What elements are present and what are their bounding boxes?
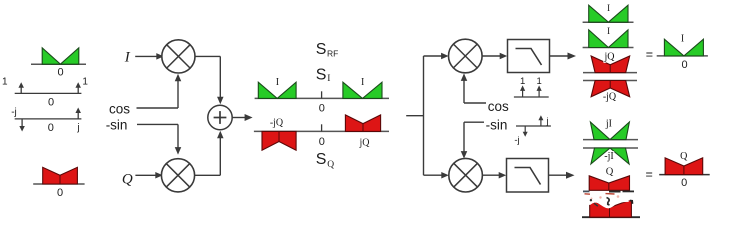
svg-text:jQ: jQ bbox=[359, 137, 371, 148]
lowpass filter F2 bbox=[507, 159, 549, 193]
svg-text:0: 0 bbox=[681, 177, 687, 189]
wire split vertical bbox=[423, 56, 425, 175]
wire F2 output bbox=[549, 174, 568, 176]
wire RF to demodulator bbox=[406, 115, 423, 117]
svg-text:j: j bbox=[76, 123, 79, 134]
result baseline (Q) bbox=[659, 174, 710, 176]
result spectrum Q (red) bbox=[665, 158, 703, 175]
wire I to mixer M1 bbox=[135, 55, 158, 57]
wire Q to mixer M2 bbox=[135, 174, 157, 176]
spectrum -Q image row4 (red) bbox=[590, 200, 632, 218]
svg-text:-sin: -sin bbox=[486, 117, 508, 132]
summer bbox=[208, 105, 232, 129]
baseline row1 (jI image) bbox=[583, 139, 638, 141]
svg-text:S: S bbox=[316, 41, 327, 58]
wire F1 output bbox=[550, 55, 570, 57]
spectrum -jQ image row4 (red butterfly inverted) bbox=[591, 81, 630, 97]
-sin impulses mini axis bbox=[516, 125, 551, 127]
svg-text:-jQ: -jQ bbox=[270, 117, 284, 128]
axis S_I baseline bbox=[255, 97, 389, 99]
spectrum jQ at +fc (red) bbox=[345, 115, 380, 131]
svg-text:0: 0 bbox=[319, 102, 325, 114]
svg-text:=: = bbox=[646, 47, 653, 61]
watermark dark squiggle bbox=[607, 198, 610, 206]
wire M2 to summer bbox=[195, 174, 221, 176]
watermark remnant white blobs bbox=[585, 193, 634, 209]
wire to mixer M3 bbox=[424, 55, 445, 57]
svg-text:-sin: -sin bbox=[106, 118, 128, 133]
svg-text:1: 1 bbox=[82, 77, 88, 88]
mixer M1 bbox=[162, 40, 195, 73]
cos impulses mini axis bbox=[514, 96, 549, 98]
baseline row3 (jQ image) bbox=[583, 72, 637, 74]
mixer M3 bbox=[449, 39, 483, 73]
baseline row3 (Q image, broken by watermark) bbox=[583, 190, 590, 192]
spectrum baseline (Q input) bbox=[33, 183, 84, 185]
svg-text:I: I bbox=[124, 49, 131, 65]
spectrum Q image row3 (red) bbox=[589, 176, 629, 191]
svg-text:-jQ: -jQ bbox=[603, 91, 617, 102]
baseline row2 (-jI image) bbox=[583, 147, 638, 149]
baseline row2 (I image) bbox=[583, 47, 634, 49]
svg-text:-jI: -jI bbox=[604, 151, 613, 162]
-sin impulse +fc (j, up arrow) bbox=[77, 111, 79, 119]
baseline row4 (-jQ image) bbox=[583, 80, 637, 82]
spectrum I at +fc (green) bbox=[343, 82, 382, 98]
cos spectrum axis bbox=[15, 92, 82, 94]
svg-text:-j: -j bbox=[11, 107, 17, 118]
spectrum I image row1 (green) bbox=[589, 5, 628, 22]
spectrum -jQ at -fc (red inverted) bbox=[262, 131, 296, 150]
cos impulse +fc (1, up arrow) bbox=[77, 85, 79, 93]
spectrum I at -fc (green) bbox=[258, 82, 296, 98]
svg-text:0: 0 bbox=[57, 187, 63, 199]
spectrum baseline (I input) bbox=[31, 63, 86, 65]
svg-text:I: I bbox=[681, 33, 684, 44]
svg-text:1: 1 bbox=[2, 77, 8, 88]
svg-text:cos: cos bbox=[488, 99, 509, 114]
svg-text:0: 0 bbox=[682, 59, 688, 71]
wire -sin to M2 bbox=[137, 123, 178, 125]
svg-text:0: 0 bbox=[319, 136, 325, 148]
tick 0 (S_Q axis) bbox=[321, 124, 323, 131]
svg-text:jI: jI bbox=[605, 118, 612, 129]
svg-text:=: = bbox=[646, 168, 653, 182]
svg-text:j: j bbox=[545, 116, 548, 127]
svg-text:S: S bbox=[316, 67, 327, 84]
wire cos to M1 bbox=[137, 107, 179, 109]
spectrum I input (green) bbox=[42, 48, 79, 64]
-sin impulse -fc (-j, down arrow) bbox=[21, 119, 23, 128]
svg-text:I: I bbox=[607, 27, 610, 37]
baseline row4 (-Q image) bbox=[582, 216, 640, 218]
svg-text:I: I bbox=[607, 4, 610, 14]
wire M3 to F1 bbox=[482, 55, 502, 57]
cos impulse -fc (1, up arrow) bbox=[20, 85, 22, 93]
wire to mixer M4 bbox=[424, 174, 445, 176]
svg-text:I: I bbox=[361, 77, 364, 88]
axis S_Q baseline bbox=[254, 130, 389, 132]
mixer M4 bbox=[449, 158, 483, 192]
svg-text:Q: Q bbox=[680, 151, 688, 162]
svg-text:I: I bbox=[276, 77, 279, 88]
wire cos to M3 bbox=[464, 102, 486, 104]
svg-text:1: 1 bbox=[520, 76, 525, 87]
wire -sin to M4 bbox=[464, 121, 484, 123]
spectrum jQ image row3 (red butterfly) bbox=[591, 56, 630, 73]
svg-text:0: 0 bbox=[57, 67, 63, 79]
-sin spectrum axis bbox=[15, 118, 82, 120]
svg-text:I: I bbox=[327, 74, 330, 84]
spectrum -jI image row2 (green butterfly inverted) bbox=[591, 148, 629, 164]
svg-text:Q: Q bbox=[606, 166, 614, 177]
result baseline (I) bbox=[657, 55, 708, 57]
result spectrum I (green) bbox=[664, 39, 703, 56]
wire M1 to summer bbox=[195, 55, 220, 57]
lowpass filter F1 bbox=[508, 40, 550, 73]
mixer M2 bbox=[161, 159, 194, 192]
spectrum I image row2 (green) bbox=[589, 30, 628, 48]
svg-text:0: 0 bbox=[48, 97, 54, 109]
spectrum Q input (red) bbox=[43, 167, 78, 184]
spectrum jI image row1 (green butterfly) bbox=[590, 122, 629, 140]
tick 0 (S_I axis) bbox=[321, 91, 323, 98]
svg-text:-j: -j bbox=[514, 135, 519, 146]
svg-text:jQ: jQ bbox=[604, 51, 616, 62]
svg-text:Q: Q bbox=[327, 160, 334, 170]
svg-text:RF: RF bbox=[327, 49, 338, 59]
svg-text:Q: Q bbox=[122, 171, 133, 187]
svg-text:1: 1 bbox=[536, 76, 541, 87]
svg-text:S: S bbox=[316, 151, 327, 168]
svg-text:0: 0 bbox=[48, 122, 54, 134]
wire summer output bbox=[232, 117, 247, 119]
wire M4 to F2 bbox=[482, 174, 501, 176]
svg-text:cos: cos bbox=[109, 102, 130, 117]
baseline row1 (I image) bbox=[583, 21, 634, 23]
